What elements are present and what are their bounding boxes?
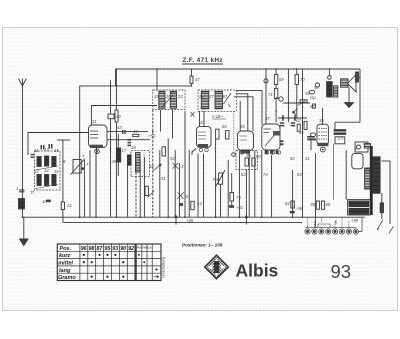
svg-text:10: 10 xyxy=(42,199,47,204)
svg-text:16: 16 xyxy=(54,169,59,174)
svg-text:13: 13 xyxy=(44,147,49,152)
svg-text:31: 31 xyxy=(92,119,97,124)
svg-text:19: 19 xyxy=(154,94,159,99)
svg-text:84: 84 xyxy=(285,201,290,206)
svg-text:37: 37 xyxy=(265,116,270,121)
svg-text:93: 93 xyxy=(331,261,352,282)
svg-text:58: 58 xyxy=(314,85,319,90)
svg-text:40: 40 xyxy=(116,114,121,119)
svg-text:87: 87 xyxy=(97,246,104,252)
svg-text:98: 98 xyxy=(89,246,95,252)
svg-text:Ra: Ra xyxy=(137,246,141,250)
svg-text:12: 12 xyxy=(34,169,39,174)
svg-text:kurz: kurz xyxy=(59,253,71,259)
svg-text:73: 73 xyxy=(236,195,241,200)
svg-text:30: 30 xyxy=(222,94,227,99)
svg-text:80: 80 xyxy=(256,154,261,159)
svg-text:96: 96 xyxy=(81,246,87,252)
svg-text:mittel: mittel xyxy=(58,261,73,267)
svg-text:67: 67 xyxy=(310,104,315,109)
svg-text:82: 82 xyxy=(290,156,295,161)
svg-text:71: 71 xyxy=(268,92,273,97)
svg-text:62: 62 xyxy=(241,172,246,177)
svg-text:46: 46 xyxy=(133,129,138,134)
svg-text:18: 18 xyxy=(131,145,136,150)
svg-text:33: 33 xyxy=(200,120,205,125)
svg-text:64: 64 xyxy=(197,201,202,206)
svg-text:89: 89 xyxy=(326,202,331,207)
svg-text:83: 83 xyxy=(297,172,302,177)
svg-text:lang: lang xyxy=(59,268,71,274)
svg-text:41: 41 xyxy=(305,156,310,161)
svg-text:93: 93 xyxy=(112,246,118,252)
svg-text:+50: +50 xyxy=(148,134,156,139)
svg-text:14: 14 xyxy=(44,168,49,173)
svg-text:Ca: Ca xyxy=(147,246,151,250)
svg-text:11: 11 xyxy=(34,148,38,153)
svg-text:39: 39 xyxy=(319,118,324,123)
svg-text:70: 70 xyxy=(300,77,305,82)
svg-text:Albis: Albis xyxy=(236,261,279,281)
svg-text:P4: P4 xyxy=(213,177,219,182)
svg-text:Wa: Wa xyxy=(142,246,147,250)
svg-text:+81: +81 xyxy=(236,205,243,210)
svg-text:+90: +90 xyxy=(296,206,304,211)
svg-text:20: 20 xyxy=(165,94,171,99)
svg-text:51: 51 xyxy=(161,176,166,181)
svg-text:17: 17 xyxy=(122,148,127,153)
svg-text:95: 95 xyxy=(104,246,111,252)
svg-text:86: 86 xyxy=(364,168,369,173)
svg-text:62: 62 xyxy=(296,118,301,123)
svg-text:Gp: Gp xyxy=(310,95,316,100)
svg-text:Umschaltung: Umschaltung xyxy=(162,257,166,278)
svg-text:90: 90 xyxy=(120,246,126,252)
svg-text:27: 27 xyxy=(208,94,214,99)
svg-text:K: K xyxy=(186,194,189,199)
svg-text:52: 52 xyxy=(170,156,175,161)
svg-text:47: 47 xyxy=(195,77,200,82)
svg-text:23: 23 xyxy=(177,94,183,99)
svg-text:Positionen: 1– 108: Positionen: 1– 108 xyxy=(182,243,223,248)
svg-text:74: 74 xyxy=(263,172,268,177)
svg-text:42: 42 xyxy=(67,203,72,208)
svg-text:85: 85 xyxy=(311,202,316,207)
svg-text:45: 45 xyxy=(112,159,117,164)
svg-text:43: 43 xyxy=(117,125,122,130)
svg-text:Gramo: Gramo xyxy=(58,275,76,281)
svg-text:35: 35 xyxy=(240,124,245,129)
svg-text:X: X xyxy=(180,164,184,169)
svg-text:59: 59 xyxy=(305,91,310,96)
svg-text:15: 15 xyxy=(54,148,59,153)
svg-text:+65: +65 xyxy=(186,218,194,223)
svg-text:2 Uk~: 2 Uk~ xyxy=(211,114,224,119)
svg-text:92: 92 xyxy=(128,246,134,252)
svg-text:66: 66 xyxy=(222,124,227,129)
svg-text:+89: +89 xyxy=(351,218,359,223)
svg-text:49: 49 xyxy=(356,75,361,80)
svg-text:Pos.: Pos. xyxy=(60,246,72,252)
svg-text:C+: C+ xyxy=(338,136,344,141)
svg-text:1: 1 xyxy=(16,186,18,191)
svg-text:69: 69 xyxy=(279,77,284,82)
svg-text:79: 79 xyxy=(246,154,251,159)
svg-text:25: 25 xyxy=(198,94,204,99)
svg-text:48: 48 xyxy=(149,164,154,169)
svg-text:65: 65 xyxy=(299,130,304,135)
svg-text:Z.F. 471 kHz: Z.F. 471 kHz xyxy=(183,57,223,64)
